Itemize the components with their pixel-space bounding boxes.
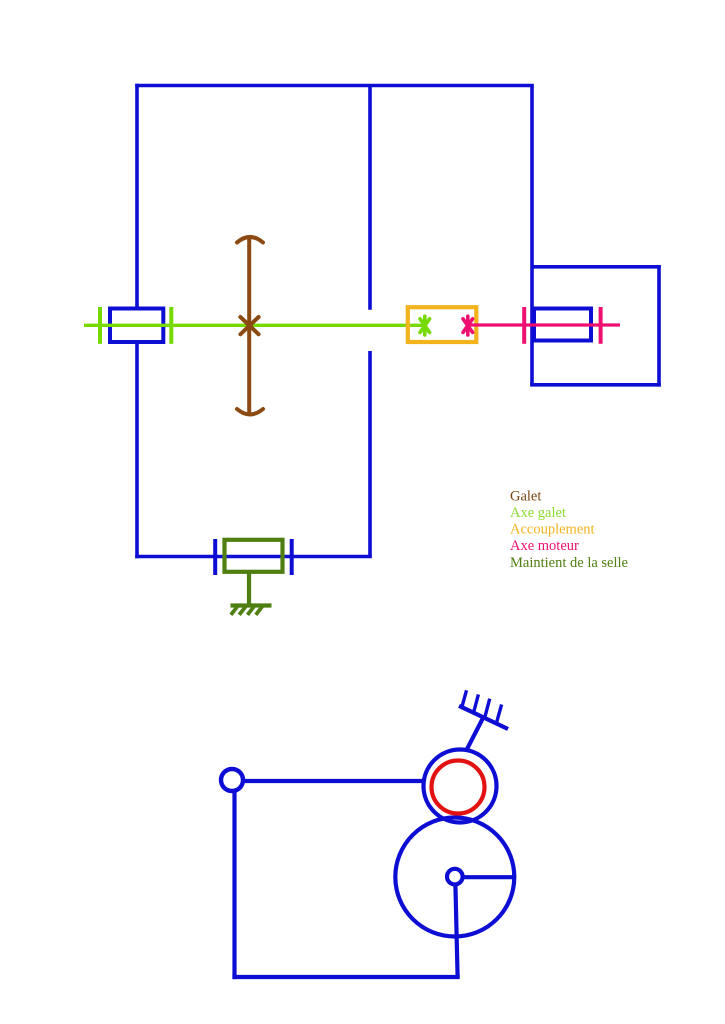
housing top edge: [135, 84, 534, 88]
left bearing green tick right: [169, 307, 173, 344]
lower figure: pivot small circle top-left: [221, 769, 243, 791]
galet top arc: [237, 237, 263, 243]
right bearing pink tick left: [522, 307, 526, 344]
svg-text:Accouplement: Accouplement: [510, 522, 595, 538]
axe galet (green axis): [84, 324, 425, 327]
housing left edge: [135, 84, 139, 559]
svg-text:Maintient de la selle: Maintient de la selle: [510, 555, 628, 571]
ground bar (top diagram): [231, 603, 272, 607]
lower figure: ground wall line: [459, 706, 508, 729]
maintien de la selle bearing (green box): [225, 540, 283, 572]
svg-text:Axe galet: Axe galet: [510, 505, 566, 521]
bottom bearing blue tick right: [290, 539, 294, 575]
legend: Axe moteur: [510, 538, 579, 554]
legend: Maintient de la selle: [510, 555, 628, 571]
legend: Galet: [510, 488, 541, 504]
lower figure: left vertical link: [232, 791, 236, 979]
lower figure: wheel hub circle: [447, 869, 463, 885]
pink asterisk joint: [463, 316, 473, 335]
lower figure: top horizontal link: [243, 779, 424, 783]
galet bottom arc: [237, 409, 263, 414]
legend: Axe galet: [510, 505, 566, 521]
svg-text:Axe moteur: Axe moteur: [510, 538, 579, 554]
axe moteur (pink axis): [468, 323, 620, 326]
left bearing (palier gauche): [110, 309, 163, 343]
legend: Accouplement: [510, 522, 595, 538]
right bearing pink tick right: [599, 307, 603, 344]
lower figure: bottom horizontal link: [232, 975, 459, 979]
lower figure: link to ground: [466, 718, 483, 751]
galet roller shaft (brown vertical): [247, 238, 251, 414]
lower figure: inner red circle: [432, 761, 485, 814]
green asterisk joint: [420, 316, 430, 335]
motor box top edge: [532, 265, 661, 269]
ground stem (top diagram): [247, 572, 251, 606]
right bearing (palier moteur): [534, 309, 591, 341]
lower figure: right vertical link: [455, 885, 457, 978]
motor box right edge: [657, 265, 661, 387]
housing right edge: [530, 86, 534, 386]
svg-text:Galet: Galet: [510, 488, 541, 504]
housing bottom edge: [135, 555, 372, 559]
lower figure: upper roller circle (blue): [424, 750, 497, 823]
left bearing green tick left: [98, 307, 102, 344]
bottom bearing blue tick left: [213, 539, 217, 575]
motor box bottom edge: [530, 383, 661, 387]
housing middle vertical upper segment: [368, 86, 372, 310]
lower figure: big wheel circle: [395, 818, 514, 937]
galet X cross: [240, 317, 258, 334]
lower figure: ground hatches: [462, 690, 502, 721]
accouplement (orange coupling box): [408, 307, 477, 342]
ground hatches (top diagram): [231, 607, 262, 615]
housing middle vertical lower segment: [368, 351, 372, 557]
lower figure: wheel radius line: [463, 875, 515, 879]
